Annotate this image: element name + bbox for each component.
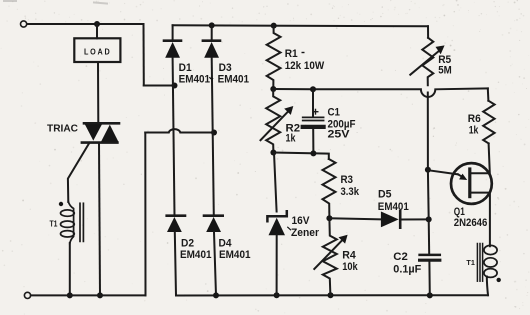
- wire mid-lower rail: [273, 153, 328, 160]
- node D1-D2 midpoint: [172, 83, 178, 89]
- svg-text:10k: 10k: [342, 261, 358, 273]
- wire AC2 with hop over D1-D2 line: [145, 129, 214, 132]
- node C1 bottom: [310, 150, 316, 156]
- T1 left phase dot: [59, 202, 63, 206]
- node D3 top: [209, 22, 215, 28]
- wire emitter node to D5 node: [427, 170, 430, 220]
- svg-text:LOAD: LOAD: [84, 48, 112, 57]
- svg-text:5M: 5M: [438, 64, 452, 76]
- potentiometer R2: [266, 89, 280, 153]
- stray scan mark top: [94, 3, 107, 4]
- resistor R6: [483, 101, 494, 144]
- transformer T1 left core: [80, 203, 83, 241]
- node R2 bottom: [270, 150, 276, 156]
- tilde mark after D1 value: [210, 77, 214, 79]
- svg-text:T1: T1: [50, 220, 58, 229]
- diode D5: [381, 211, 429, 228]
- label R1 dash: [302, 52, 305, 54]
- svg-text:TRIAC: TRIAC: [47, 123, 78, 135]
- svg-text:0.1µF: 0.1µF: [393, 264, 421, 276]
- svg-text:16V: 16V: [292, 215, 311, 227]
- Q1 base1 wire: [470, 193, 490, 247]
- svg-text:R4: R4: [342, 250, 356, 262]
- capacitor C1: [303, 89, 324, 153]
- node D4 bottom: [213, 292, 219, 298]
- wire AC2 up: [144, 133, 146, 296]
- wire triac gate diagonal: [68, 143, 90, 202]
- svg-text:R1: R1: [285, 48, 298, 60]
- wire triac to bottom rail: [99, 143, 100, 296]
- R4 arrow: [314, 235, 347, 269]
- R5 arrow: [410, 45, 444, 74]
- T1 right phase dot: [497, 278, 501, 282]
- wire D3 to D4: [212, 58, 214, 216]
- wire R3 junction to D5: [329, 218, 381, 219]
- wire top rail right segment: [173, 25, 428, 26]
- svg-text:2N2646: 2N2646: [454, 217, 488, 229]
- svg-text:D4: D4: [219, 238, 233, 250]
- triac right triangle: [101, 125, 118, 142]
- node R2 top: [270, 86, 276, 92]
- svg-text:25V: 25V: [328, 129, 351, 141]
- diode D1: [164, 25, 181, 58]
- wire mid rail with hop over R5 lead: [273, 88, 488, 97]
- transistor Q1 2N2646 circle: [451, 163, 492, 204]
- wire bottom rail right segment: [176, 294, 488, 296]
- potentiometer R4: [323, 218, 337, 295]
- Q1 emitter wire and arrow: [428, 170, 467, 180]
- wire D1 to D2: [173, 58, 175, 216]
- node emitter junction: [425, 167, 431, 173]
- R2 arrow: [261, 106, 294, 140]
- node R1 top: [271, 23, 277, 29]
- node C1 top: [310, 86, 316, 92]
- svg-text:EM401: EM401: [378, 201, 409, 213]
- resistor R3: [323, 159, 336, 218]
- stray scan mark top-left: [4, 0, 16, 2]
- resistor R1: [267, 26, 281, 89]
- wire AC1 to bridge: [144, 85, 175, 87]
- svg-text:C2: C2: [393, 251, 408, 263]
- svg-text:EM401: EM401: [179, 74, 211, 86]
- transformer T1 right core: [477, 244, 482, 282]
- potentiometer R5: [422, 38, 433, 86]
- node R4 bottom: [328, 292, 334, 298]
- wire mid rail corner down to R6: [487, 88, 490, 100]
- wire LOAD top lead: [96, 24, 98, 38]
- svg-text:EM401: EM401: [180, 249, 212, 261]
- svg-text:T1: T1: [466, 258, 475, 267]
- wire bottom-left rail: [31, 294, 146, 296]
- wire R6 to Q1 base2: [470, 143, 490, 173]
- svg-text:D2: D2: [181, 238, 194, 250]
- svg-text:C1: C1: [328, 107, 341, 119]
- svg-text:1k: 1k: [469, 125, 479, 137]
- triac left triangle: [85, 124, 102, 140]
- wire LOAD to triac: [97, 62, 99, 123]
- svg-text:D1: D1: [179, 62, 192, 74]
- wire top rail corner down to R5: [427, 26, 429, 38]
- diode D4: [204, 216, 223, 296]
- node D3-D4 midpoint: [211, 130, 217, 136]
- wire R5 lead through hop down to emitter node: [427, 93, 429, 170]
- wire top-left rail: [27, 23, 144, 25]
- svg-text:1k: 1k: [286, 133, 297, 145]
- node zener bottom: [274, 292, 280, 298]
- node junction LOAD tap: [94, 21, 100, 27]
- svg-text:R6: R6: [468, 113, 481, 125]
- diode D3: [203, 25, 220, 57]
- wire AC1 down: [143, 24, 145, 86]
- svg-text:EM401: EM401: [219, 249, 251, 261]
- svg-text:R3: R3: [341, 174, 354, 186]
- node D5 cathode / C2 top: [426, 216, 432, 222]
- wire T1 right bottom lead: [487, 277, 488, 296]
- node T1 bottom: [67, 292, 73, 298]
- svg-text:D5: D5: [378, 189, 392, 201]
- terminal top-left: [21, 21, 27, 27]
- transformer T1 left winding: [61, 202, 75, 244]
- svg-text:Zener: Zener: [291, 227, 320, 239]
- zener diode 16V: [267, 153, 286, 296]
- wire T1 left bottom lead: [69, 243, 71, 295]
- svg-text:EM401: EM401: [218, 74, 250, 86]
- node C2 bottom: [427, 292, 433, 298]
- transformer T1 right winding: [484, 245, 497, 277]
- C1 plus sign: [313, 109, 318, 114]
- svg-text:3.3k: 3.3k: [341, 186, 360, 198]
- tick mark near zener label: [287, 227, 291, 230]
- svg-text:D3: D3: [219, 62, 232, 74]
- diode D2: [167, 216, 185, 296]
- svg-text:12k 10W: 12k 10W: [285, 60, 325, 72]
- capacitor C2: [420, 220, 440, 296]
- node R3 bottom / D5 anode: [326, 215, 332, 221]
- node triac bottom: [97, 292, 103, 298]
- terminal bottom-left: [24, 292, 30, 298]
- load box: [74, 38, 120, 62]
- triac bottom bar: [82, 141, 118, 144]
- triac top bar: [84, 122, 119, 125]
- Q1 base bar: [468, 169, 471, 197]
